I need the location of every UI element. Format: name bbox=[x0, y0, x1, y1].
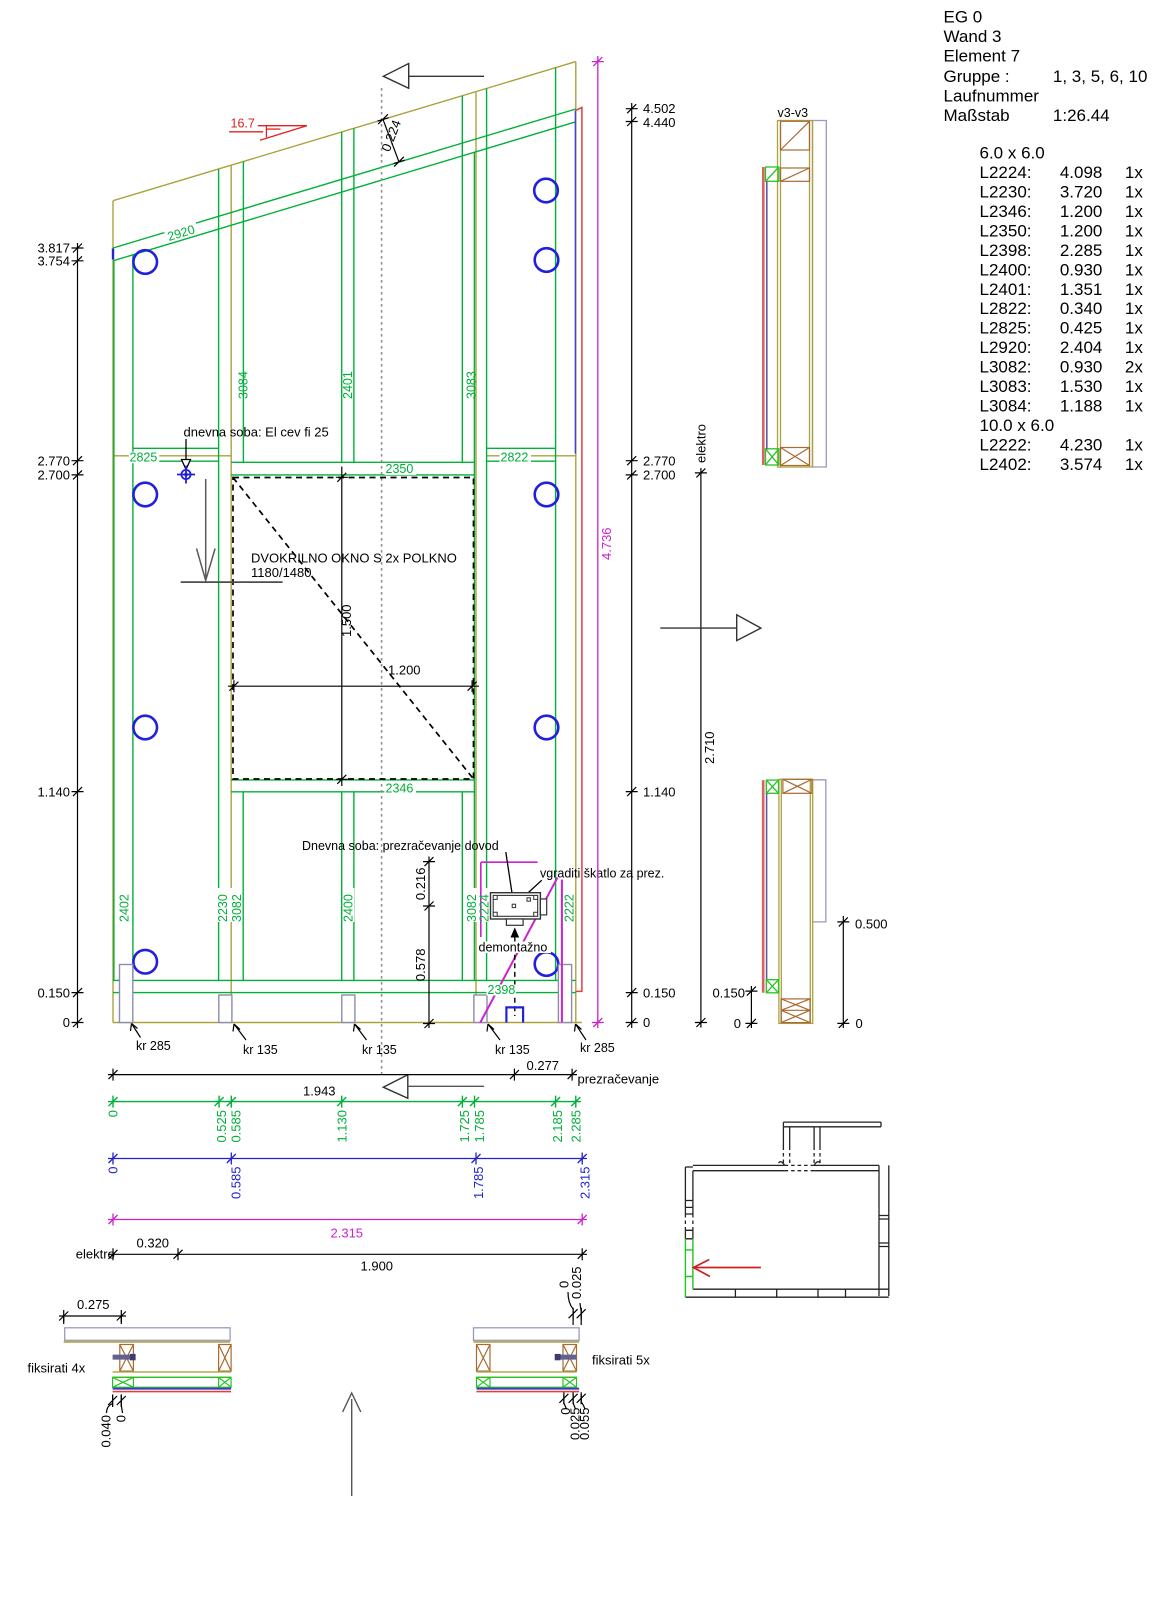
green dimension chain bbox=[108, 1096, 581, 1108]
dim 0.224 along slope bbox=[378, 114, 405, 166]
elektro 0.320 1.900 dim bbox=[108, 1248, 587, 1260]
floor plan bbox=[685, 1122, 888, 1297]
stud 3083 left edge bbox=[461, 156, 463, 463]
window head 2350 upper edge bbox=[231, 461, 474, 463]
label 2825 bbox=[129, 451, 160, 465]
svg-text:fiksirati 5x: fiksirati 5x bbox=[592, 1353, 650, 1368]
red view arrow in plan bbox=[693, 1260, 761, 1277]
demontazno dashed line bbox=[514, 938, 516, 1017]
green block left bbox=[113, 1377, 134, 1387]
svg-text:fiksirati 4x: fiksirati 4x bbox=[28, 1361, 86, 1376]
slope symbol 16.7 bbox=[229, 126, 307, 141]
svg-text:2.315: 2.315 bbox=[331, 1226, 364, 1241]
svg-text:L2825:: L2825: bbox=[980, 319, 1032, 338]
bottom wall bbox=[685, 1289, 888, 1297]
svg-text:2822: 2822 bbox=[501, 451, 529, 465]
svg-text:0.930: 0.930 bbox=[1060, 358, 1103, 377]
panel right edge bbox=[575, 62, 577, 1023]
svg-text:0: 0 bbox=[114, 1415, 129, 1422]
window vertical dim 1.500 bbox=[336, 467, 348, 787]
svg-text:1.351: 1.351 bbox=[1060, 280, 1103, 299]
brown bottom blocks bbox=[781, 999, 810, 1023]
stub above plate x243.4 bbox=[242, 162, 244, 222]
el cev target symbol bbox=[177, 466, 195, 484]
plank olive face line bbox=[64, 1341, 230, 1343]
svg-text:3083: 3083 bbox=[465, 371, 479, 399]
blue dimension chain bbox=[108, 1153, 587, 1165]
svg-text:1x: 1x bbox=[1125, 182, 1143, 201]
svg-text:2x: 2x bbox=[1125, 358, 1143, 377]
green block left bbox=[477, 1377, 491, 1387]
green top block bbox=[766, 780, 778, 793]
svg-text:2222: 2222 bbox=[563, 894, 577, 922]
right dimension line bbox=[626, 103, 638, 1028]
svg-text:1.900: 1.900 bbox=[361, 1259, 394, 1274]
svg-text:1x: 1x bbox=[1125, 202, 1143, 221]
svg-text:3082: 3082 bbox=[230, 894, 244, 922]
svg-text:kr 285: kr 285 bbox=[580, 1041, 615, 1055]
green plate lines bbox=[133, 1377, 218, 1387]
red membrane bbox=[762, 780, 765, 993]
svg-text:0.216: 0.216 bbox=[413, 868, 428, 901]
green block right bbox=[219, 1377, 232, 1387]
bottom plate 2398 upper edge bbox=[113, 979, 576, 981]
svg-text:2350: 2350 bbox=[386, 462, 414, 476]
bottom dim 1.943 / 0.277 bbox=[108, 1069, 577, 1081]
el cev arrow bbox=[182, 439, 191, 470]
svg-text:1x: 1x bbox=[1125, 435, 1143, 454]
wall panel elevation bbox=[113, 62, 582, 1023]
magenta duct horizontal bbox=[481, 861, 538, 863]
svg-text:1x: 1x bbox=[1125, 280, 1143, 299]
view direction arrow up bbox=[343, 1393, 361, 1496]
top plank bbox=[65, 1328, 230, 1341]
bottom dims 0 0.025 0.055 bbox=[559, 1392, 585, 1409]
svg-text:10.0 x 6.0: 10.0 x 6.0 bbox=[980, 416, 1055, 435]
svg-text:1.530: 1.530 bbox=[1060, 377, 1103, 396]
svg-text:prezračevanje: prezračevanje bbox=[578, 1072, 660, 1087]
svg-text:0.150: 0.150 bbox=[712, 986, 745, 1001]
svg-text:3.754: 3.754 bbox=[37, 254, 70, 269]
blue circles nail marks bbox=[133, 179, 558, 976]
blue membrane bbox=[766, 793, 768, 979]
svg-text:L2400:: L2400: bbox=[980, 260, 1032, 279]
gips board bbox=[812, 780, 826, 922]
stub above plate x218.6 bbox=[218, 169, 220, 229]
elektro dim 2.710 bbox=[695, 468, 707, 1028]
small dims 0.040 0 bbox=[107, 1395, 126, 1414]
red layer line right edge bbox=[575, 108, 582, 992]
olive plate lines bbox=[113, 1372, 232, 1377]
bottom section arrow bbox=[383, 1075, 484, 1099]
right section arrow bbox=[660, 615, 761, 641]
svg-text:L2402:: L2402: bbox=[980, 455, 1032, 474]
bottom plate 2398 lower edge bbox=[113, 992, 576, 994]
green top block bbox=[766, 167, 779, 181]
fiksirati 4x detail bbox=[59, 1297, 231, 1448]
panel left edge bbox=[112, 201, 114, 1023]
svg-text:2.315: 2.315 bbox=[578, 1167, 593, 1200]
svg-text:0.320: 0.320 bbox=[137, 1236, 170, 1251]
vent box bottom tab bbox=[506, 919, 523, 925]
svg-text:2.770: 2.770 bbox=[37, 454, 70, 469]
svg-text:Element 7: Element 7 bbox=[944, 47, 1021, 66]
stub above plate x353.9 bbox=[353, 128, 355, 188]
strap kr285 left bbox=[120, 965, 133, 1023]
brown block right bbox=[219, 1345, 232, 1372]
svg-text:2.710: 2.710 bbox=[702, 731, 717, 764]
svg-text:1.200: 1.200 bbox=[1060, 202, 1103, 221]
svg-text:L2822:: L2822: bbox=[980, 299, 1032, 318]
top dims 0 0.025 bbox=[568, 1292, 586, 1325]
svg-text:3.720: 3.720 bbox=[1060, 182, 1103, 201]
stud 2224 right edge bbox=[486, 149, 488, 981]
svg-text:4.230: 4.230 bbox=[1060, 435, 1103, 454]
dim 0.275 bbox=[59, 1310, 126, 1324]
svg-text:4.098: 4.098 bbox=[1060, 163, 1103, 182]
conduit down arrow bbox=[197, 479, 216, 581]
stub above plate x486.6 bbox=[486, 88, 488, 148]
olive plank column bbox=[779, 779, 813, 1023]
blue line right edge bbox=[574, 111, 576, 454]
corridor stub A bbox=[783, 1127, 789, 1147]
svg-text:1x: 1x bbox=[1125, 260, 1143, 279]
svg-text:0: 0 bbox=[63, 1015, 70, 1030]
svg-text:1x: 1x bbox=[1125, 221, 1143, 240]
svg-text:kr 135: kr 135 bbox=[243, 1043, 278, 1057]
blue membrane bbox=[477, 1388, 580, 1390]
svg-text:1.140: 1.140 bbox=[643, 785, 676, 800]
svg-text:0.585: 0.585 bbox=[229, 1167, 244, 1200]
brown block 2 bbox=[781, 168, 810, 181]
blue mark on left edge bbox=[112, 249, 114, 260]
svg-text:DVOKRILNO OKNO S 2x POLKNO: DVOKRILNO OKNO S 2x POLKNO bbox=[251, 551, 457, 566]
svg-text:1x: 1x bbox=[1125, 241, 1143, 260]
stud 2224 left edge bbox=[473, 152, 475, 980]
svg-text:0: 0 bbox=[643, 1015, 650, 1030]
label 2346 bbox=[385, 782, 417, 796]
svg-text:1x: 1x bbox=[1125, 163, 1143, 182]
v1 section detail lower bbox=[712, 779, 887, 1031]
svg-text:L2224:: L2224: bbox=[980, 163, 1032, 182]
svg-text:4.502: 4.502 bbox=[643, 101, 676, 116]
window diagonal dashed bbox=[233, 478, 474, 780]
panel top sloped edge bbox=[113, 62, 576, 201]
svg-text:2.285: 2.285 bbox=[1060, 241, 1103, 260]
corridor stub B bbox=[814, 1127, 820, 1147]
svg-text:0.578: 0.578 bbox=[413, 949, 428, 982]
blue membrane bbox=[766, 181, 768, 449]
stub above plate x462.3 bbox=[461, 96, 463, 156]
corridor top bar bbox=[783, 1122, 881, 1127]
svg-text:2230: 2230 bbox=[216, 894, 230, 922]
stud 3082a right edge bbox=[242, 792, 244, 981]
olive plank column bbox=[778, 121, 813, 468]
svg-text:L2346:: L2346: bbox=[980, 202, 1032, 221]
screw symbol bbox=[113, 1355, 136, 1360]
svg-text:0: 0 bbox=[856, 1016, 863, 1031]
dim 0.150 left bbox=[745, 986, 757, 1028]
svg-text:1.785: 1.785 bbox=[472, 1110, 487, 1143]
svg-text:2.185: 2.185 bbox=[550, 1110, 565, 1143]
label 2920 sloped bbox=[164, 222, 200, 245]
svg-text:0: 0 bbox=[734, 1016, 741, 1031]
svg-text:1.785: 1.785 bbox=[471, 1167, 486, 1200]
red membrane bbox=[113, 1391, 232, 1393]
svg-text:4.736: 4.736 bbox=[599, 527, 614, 560]
window sill 2346 upper edge bbox=[231, 779, 474, 781]
svg-text:2.770: 2.770 bbox=[643, 454, 676, 469]
brown block left bbox=[477, 1345, 491, 1372]
magenta duct diagonal bbox=[480, 878, 557, 1023]
strap kr135 b bbox=[342, 995, 355, 1023]
svg-text:1.943: 1.943 bbox=[303, 1084, 336, 1099]
svg-text:0.500: 0.500 bbox=[855, 917, 888, 932]
svg-text:0.585: 0.585 bbox=[229, 1110, 244, 1143]
brown top block bbox=[781, 121, 810, 150]
stud 3082b left edge bbox=[461, 792, 463, 981]
svg-text:1x: 1x bbox=[1125, 338, 1143, 357]
window horizontal dim 1.200 bbox=[228, 680, 479, 692]
dim 0.500 bbox=[837, 916, 849, 1028]
svg-text:2398: 2398 bbox=[488, 983, 516, 997]
magenta overall width dim bbox=[108, 1214, 587, 1226]
green plate lines bbox=[490, 1377, 563, 1387]
svg-text:4.440: 4.440 bbox=[643, 115, 676, 130]
vent leader 2 bbox=[517, 880, 542, 903]
svg-text:0.525: 0.525 bbox=[214, 1110, 229, 1143]
brown block right bbox=[563, 1345, 577, 1372]
magenta duct vertical 2 bbox=[561, 880, 563, 1023]
svg-text:0.150: 0.150 bbox=[643, 986, 676, 1001]
vent leader arrowhead bbox=[510, 897, 518, 906]
plank olive face line bbox=[474, 1341, 580, 1343]
svg-text:2401: 2401 bbox=[341, 371, 355, 399]
label 2822 bbox=[500, 451, 532, 465]
svg-text:demontažno: demontažno bbox=[479, 941, 548, 955]
svg-text:1x: 1x bbox=[1125, 299, 1143, 318]
top plank bbox=[474, 1328, 580, 1341]
blocking 2822 lower edge bbox=[487, 460, 556, 462]
svg-text:dnevna soba: El cev fi 25: dnevna soba: El cev fi 25 bbox=[184, 425, 329, 440]
vent box screw marks bbox=[512, 904, 515, 907]
dim 0.216 / 0.578 bbox=[423, 857, 435, 1029]
left dimension line bbox=[72, 243, 84, 1028]
svg-text:L3082:: L3082: bbox=[980, 358, 1032, 377]
right wall bbox=[879, 1165, 889, 1296]
green block right bbox=[563, 1377, 577, 1387]
svg-text:L3083:: L3083: bbox=[980, 377, 1032, 396]
svg-text:1.130: 1.130 bbox=[335, 1110, 350, 1143]
door dashes top bbox=[785, 1165, 815, 1170]
stud 2222 left edge bbox=[555, 128, 557, 981]
svg-text:2346: 2346 bbox=[386, 782, 414, 796]
kr labels and arrows bbox=[131, 1024, 587, 1041]
olive plate lines bbox=[477, 1372, 577, 1377]
svg-text:1.725: 1.725 bbox=[457, 1110, 472, 1143]
brown block left bbox=[120, 1345, 134, 1372]
svg-text:0: 0 bbox=[106, 1167, 121, 1174]
stud 2401 right edge bbox=[353, 188, 355, 462]
stub above plate x341.7 bbox=[341, 132, 343, 192]
svg-text:0: 0 bbox=[106, 1110, 121, 1117]
blocking 2825 upper edge bbox=[133, 447, 219, 449]
svg-text:Maßstab: Maßstab bbox=[944, 106, 1010, 125]
olive batten line left at 2.76 bbox=[113, 455, 231, 457]
brown bottom block bbox=[781, 448, 810, 466]
panel bottom edge bbox=[113, 1022, 582, 1024]
room top wall bbox=[693, 1165, 879, 1170]
olive vertical joint 2 bbox=[475, 92, 477, 1023]
vent box inner bbox=[493, 895, 538, 916]
svg-text:2825: 2825 bbox=[130, 451, 158, 465]
window head 2350 lower edge bbox=[231, 474, 474, 476]
screw symbol bbox=[555, 1355, 577, 1360]
stud 3084 right edge bbox=[242, 222, 244, 463]
svg-text:EG 0: EG 0 bbox=[944, 8, 983, 27]
svg-text:0.340: 0.340 bbox=[1060, 299, 1103, 318]
svg-text:vgraditi škatlo za prez.: vgraditi škatlo za prez. bbox=[540, 867, 664, 881]
magenta duct vertical 1 bbox=[480, 862, 482, 937]
green bottom block bbox=[766, 449, 779, 465]
blue bracket symbol bbox=[506, 1007, 523, 1022]
title block text bbox=[944, 8, 1148, 125]
svg-text:kr 285: kr 285 bbox=[136, 1039, 171, 1053]
svg-text:L2398:: L2398: bbox=[980, 241, 1032, 260]
svg-text:v3-v3: v3-v3 bbox=[778, 106, 809, 120]
gips board bbox=[813, 121, 827, 468]
top section arrow bbox=[383, 64, 484, 89]
demontazno arrow up bbox=[511, 927, 520, 937]
vent box corner marks bbox=[493, 895, 538, 916]
door bumps bbox=[779, 1162, 821, 1166]
blocking 2822 upper edge bbox=[487, 447, 556, 449]
stud 2230 left edge bbox=[218, 229, 220, 980]
strap kr135 a bbox=[219, 995, 232, 1023]
conduit end line bbox=[181, 581, 283, 583]
svg-text:1x: 1x bbox=[1125, 377, 1143, 396]
parts list bbox=[980, 143, 1144, 474]
svg-text:L2222:: L2222: bbox=[980, 435, 1032, 454]
fiksirati 5x detail bbox=[474, 1266, 593, 1440]
svg-text:1.188: 1.188 bbox=[1060, 397, 1103, 416]
svg-text:1.200: 1.200 bbox=[388, 663, 421, 678]
red membrane bbox=[762, 167, 765, 465]
svg-text:0.040: 0.040 bbox=[99, 1415, 114, 1448]
window sill 2346 lower edge bbox=[231, 791, 474, 793]
svg-text:0.055: 0.055 bbox=[577, 1408, 592, 1441]
green bottom block bbox=[766, 980, 778, 993]
svg-text:0.425: 0.425 bbox=[1060, 319, 1103, 338]
window opening dashed rect bbox=[233, 478, 474, 780]
stub above plate x555.6 bbox=[555, 68, 557, 128]
svg-text:2224: 2224 bbox=[477, 894, 491, 922]
v3-v3 section detail bbox=[763, 106, 826, 467]
svg-text:16.7: 16.7 bbox=[231, 117, 255, 131]
svg-text:2400: 2400 bbox=[342, 894, 356, 922]
svg-text:Laufnummer: Laufnummer bbox=[944, 86, 1040, 105]
olive batten line right at 2.76 bbox=[487, 455, 576, 457]
svg-text:0.275: 0.275 bbox=[77, 1297, 110, 1312]
svg-text:0.150: 0.150 bbox=[37, 986, 70, 1001]
olive vertical joint 1 bbox=[230, 165, 232, 1022]
strap kr285 right bbox=[558, 965, 571, 1023]
stud 2401 left edge bbox=[341, 192, 343, 462]
demontazno text bbox=[478, 941, 551, 955]
svg-text:1.500: 1.500 bbox=[339, 604, 354, 637]
svg-text:L2350:: L2350: bbox=[980, 221, 1032, 240]
svg-text:0.930: 0.930 bbox=[1060, 260, 1103, 279]
stud 2400 left edge bbox=[341, 792, 343, 981]
svg-text:1x: 1x bbox=[1125, 455, 1143, 474]
svg-text:L2401:: L2401: bbox=[980, 280, 1032, 299]
svg-text:2.700: 2.700 bbox=[643, 468, 676, 483]
svg-text:0.277: 0.277 bbox=[527, 1058, 560, 1073]
svg-text:1180/1480: 1180/1480 bbox=[251, 565, 312, 580]
svg-text:L2920:: L2920: bbox=[980, 338, 1032, 357]
svg-text:1:26.44: 1:26.44 bbox=[1053, 106, 1110, 125]
svg-text:1.200: 1.200 bbox=[1060, 221, 1103, 240]
top plate 2920 lower edge bbox=[113, 122, 576, 261]
svg-text:2.404: 2.404 bbox=[1060, 338, 1103, 357]
svg-text:2.285: 2.285 bbox=[569, 1110, 584, 1143]
svg-text:L3084:: L3084: bbox=[980, 397, 1032, 416]
top plate 2920 upper edge bbox=[113, 109, 576, 248]
svg-text:Wand 3: Wand 3 bbox=[944, 27, 1002, 46]
svg-text:1x: 1x bbox=[1125, 397, 1143, 416]
svg-text:2.700: 2.700 bbox=[37, 468, 70, 483]
svg-text:2402: 2402 bbox=[118, 894, 132, 922]
blue membrane bbox=[113, 1388, 232, 1390]
svg-text:0.025: 0.025 bbox=[569, 1266, 584, 1299]
svg-text:1, 3, 5, 6, 10: 1, 3, 5, 6, 10 bbox=[1053, 67, 1148, 86]
stud 2402 left edge bbox=[113, 261, 115, 981]
wall element green in plan bbox=[685, 1239, 693, 1297]
svg-text:kr 135: kr 135 bbox=[362, 1043, 397, 1057]
svg-text:elektro: elektro bbox=[76, 1247, 115, 1262]
svg-text:Gruppe :: Gruppe : bbox=[944, 67, 1010, 86]
vent leader 1 bbox=[506, 852, 514, 903]
label 2350 bbox=[385, 462, 417, 476]
stud 2400 right edge bbox=[353, 792, 355, 981]
svg-text:1.140: 1.140 bbox=[37, 785, 70, 800]
red membrane bbox=[477, 1391, 580, 1393]
svg-text:L2230:: L2230: bbox=[980, 182, 1032, 201]
svg-text:3.574: 3.574 bbox=[1060, 455, 1103, 474]
brown top block bbox=[783, 779, 812, 793]
svg-text:1x: 1x bbox=[1125, 319, 1143, 338]
label 2398 bbox=[487, 983, 517, 997]
svg-text:kr 135: kr 135 bbox=[495, 1043, 530, 1057]
vent box outer bbox=[491, 893, 541, 919]
left wall upper bbox=[685, 1167, 693, 1201]
stud 2402 right edge bbox=[132, 255, 134, 981]
svg-text:elektro: elektro bbox=[694, 424, 709, 463]
section line dotted bbox=[381, 88, 383, 1076]
svg-text:Dnevna soba: prezračevanje dov: Dnevna soba: prezračevanje dovod bbox=[302, 839, 499, 853]
blocking 2825 lower edge bbox=[133, 460, 219, 462]
magenta overall height dim 4.736 bbox=[592, 56, 604, 1028]
strap kr135 c bbox=[474, 995, 487, 1023]
svg-text:6.0 x 6.0: 6.0 x 6.0 bbox=[980, 143, 1045, 162]
svg-text:3084: 3084 bbox=[237, 371, 251, 399]
vent box right tab bbox=[540, 899, 546, 915]
